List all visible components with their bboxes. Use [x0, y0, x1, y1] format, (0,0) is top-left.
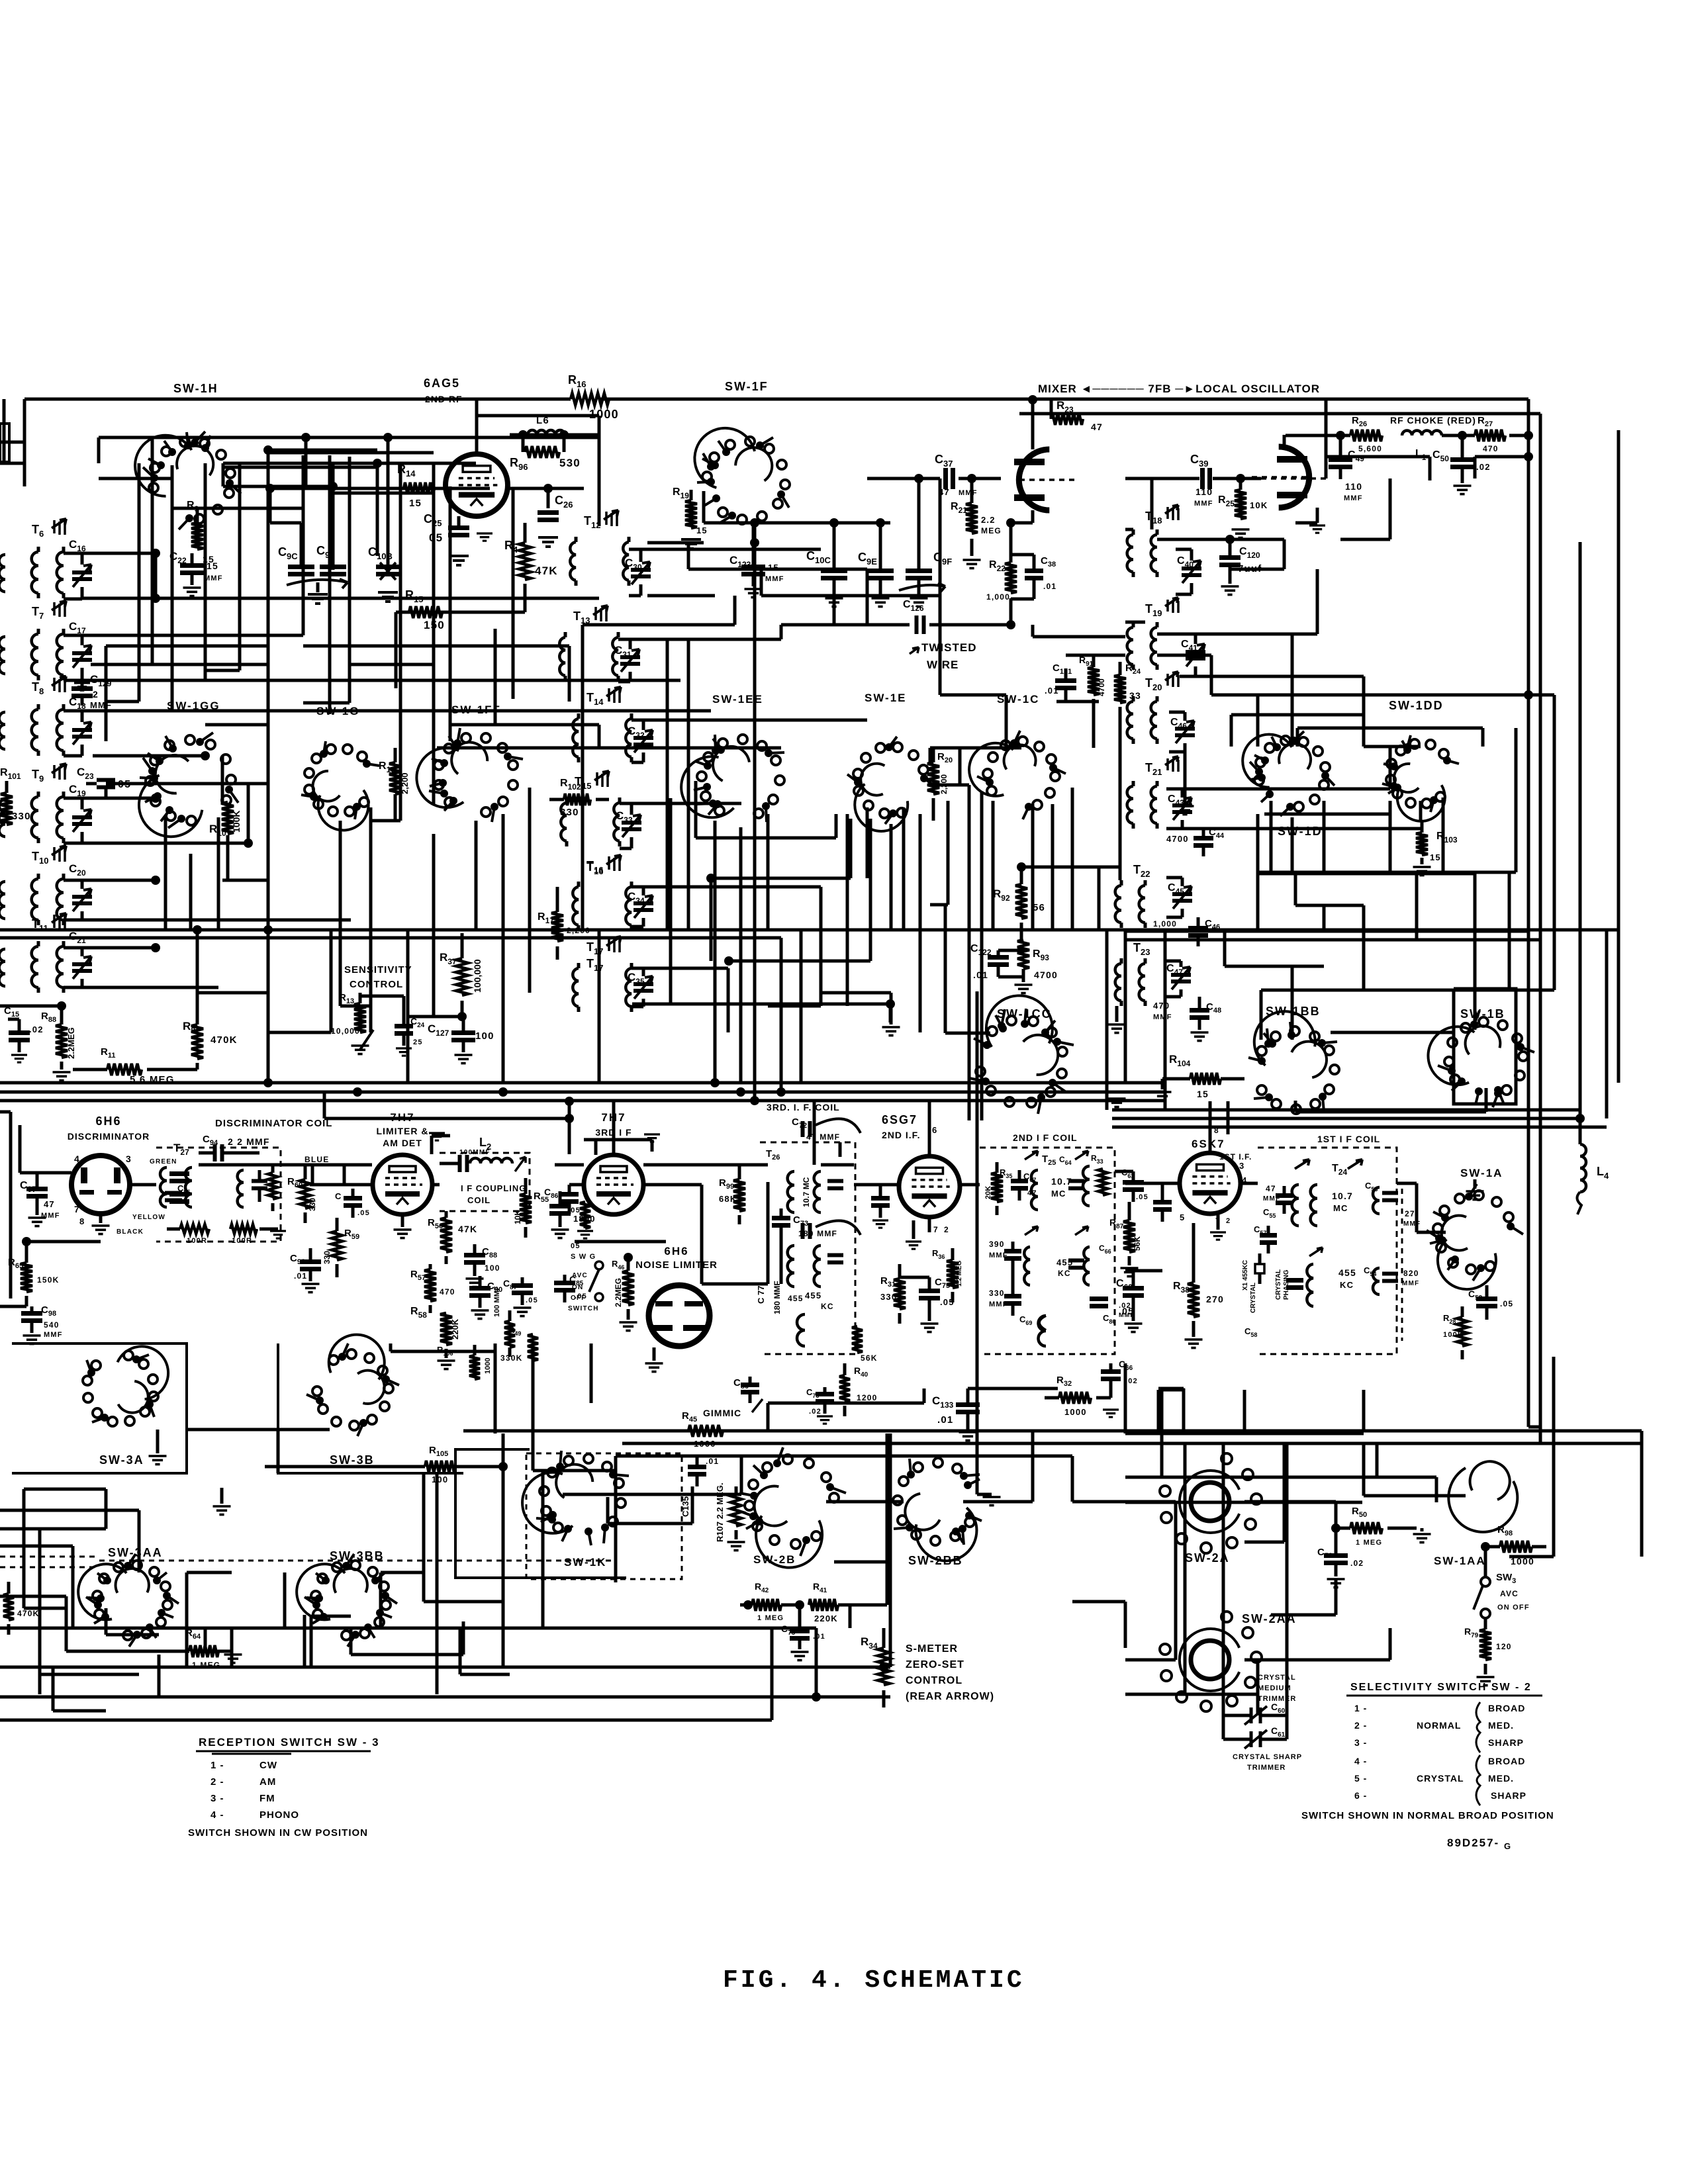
wire [1125, 477, 1199, 480]
wire grid [440, 487, 445, 490]
svg-text:47 MMF: 47 MMF [806, 1132, 840, 1142]
svg-text:MMF: MMF [1402, 1280, 1419, 1287]
wire [1256, 1694, 1260, 1715]
wire [928, 1218, 931, 1232]
wire [171, 465, 174, 711]
wire [930, 784, 969, 787]
wire [1362, 905, 1366, 990]
capacitor C41 trimmer [1186, 652, 1205, 659]
wire [1174, 1502, 1178, 1660]
svg-text:3: 3 [1239, 1161, 1244, 1171]
wire [1199, 1693, 1258, 1696]
wire [1417, 938, 1454, 942]
svg-text:2ND RF: 2ND RF [425, 394, 463, 404]
trimmer arrow T21 [1165, 756, 1178, 765]
junction [624, 1253, 633, 1262]
wire [1295, 1111, 1486, 1114]
wire [598, 437, 601, 526]
coil fragment left [0, 555, 5, 592]
transformer T7 secondary [57, 634, 64, 675]
capacitor C85 [554, 1283, 575, 1291]
svg-text:470: 470 [1153, 1001, 1170, 1011]
wire [1125, 930, 1528, 933]
wire [1640, 1443, 1644, 1557]
wire [512, 488, 515, 699]
resistor R25 [1235, 490, 1246, 519]
svg-text:WIRE: WIRE [927, 659, 959, 671]
wire [992, 814, 995, 930]
junction [876, 518, 885, 527]
wire [1031, 625, 1035, 637]
svg-text:BLACK: BLACK [117, 1228, 144, 1236]
wire [0, 1527, 106, 1531]
capacitor C65 [1068, 1261, 1084, 1268]
wire [1150, 478, 1154, 529]
wire [1243, 1390, 1246, 1431]
svg-text:15: 15 [409, 498, 422, 509]
wire [1509, 1555, 1554, 1559]
wire [302, 455, 305, 635]
wire [1515, 728, 1518, 872]
transformer T11 primary [32, 946, 38, 987]
wire [223, 466, 377, 469]
transformer T6 secondary [57, 552, 64, 593]
wire [1119, 748, 1122, 880]
wire [436, 1473, 439, 1628]
capacitor C68a [1004, 1251, 1021, 1259]
wire [1552, 1357, 1556, 1557]
resistor R98b [580, 1202, 590, 1228]
resistor R65 [21, 1263, 32, 1292]
resistor R93 [1017, 940, 1029, 969]
svg-text:4 -: 4 - [211, 1809, 224, 1821]
wire [65, 1596, 68, 1628]
switch contacts [755, 1518, 763, 1525]
trimmer arrow T20 [1165, 672, 1178, 680]
wire [422, 1473, 426, 1572]
svg-text:2 -: 2 - [211, 1776, 224, 1788]
svg-text:.02: .02 [1476, 462, 1491, 472]
svg-text:1200: 1200 [857, 1393, 878, 1402]
wire [268, 1031, 331, 1034]
tube U2 7F8 mixer half [1019, 449, 1049, 510]
capacitor C126 [917, 615, 924, 634]
wire [449, 486, 452, 741]
trim arrow [1309, 1248, 1323, 1256]
resistor R101 [1, 793, 13, 825]
wire [138, 463, 141, 702]
svg-text:DISCRIMINATOR COIL: DISCRIMINATOR COIL [215, 1118, 332, 1129]
wire [381, 1571, 424, 1574]
wire [105, 1489, 108, 1529]
wire [408, 1015, 462, 1019]
tube U4 7H7 limiter [373, 1155, 432, 1214]
wire [846, 814, 849, 930]
wire [350, 663, 434, 666]
wire [1376, 1443, 1379, 1477]
wire [1283, 435, 1286, 447]
svg-text:180 MMF: 180 MMF [773, 1281, 782, 1314]
wire [1231, 713, 1364, 717]
wire [1617, 430, 1620, 1083]
capacitor C90b [469, 1289, 491, 1296]
wire [1258, 871, 1516, 874]
resistor R92 [1015, 884, 1027, 919]
wire [344, 1163, 372, 1167]
svg-text:RECEPTION SWITCH SW - 3: RECEPTION SWITCH SW - 3 [199, 1736, 380, 1749]
resistor R8 [191, 1024, 203, 1059]
wire [1296, 728, 1299, 747]
svg-text:MED.: MED. [1488, 1773, 1514, 1784]
svg-text:.02: .02 [1125, 1377, 1138, 1385]
switch SW-1FF [416, 748, 463, 807]
transformer T25 coil5 [1039, 1316, 1046, 1346]
svg-text:BROAD: BROAD [1488, 1756, 1525, 1766]
trimmer arrow T11 [52, 913, 66, 923]
switch SW-2A [1191, 1482, 1229, 1521]
wire [138, 1510, 141, 1572]
junction [812, 1692, 821, 1702]
wire [82, 842, 248, 845]
bus wire [0, 1666, 890, 1669]
resistor R11 [107, 1064, 142, 1075]
wire [1225, 965, 1324, 968]
box SW-1B [1454, 989, 1516, 1104]
wire [82, 946, 156, 950]
junction [151, 943, 160, 952]
wire [285, 1627, 351, 1630]
svg-text:NOISE LIMITER: NOISE LIMITER [635, 1259, 718, 1271]
svg-text:1000: 1000 [1064, 1407, 1087, 1417]
wire [1389, 1628, 1392, 1660]
svg-text:SW-3B: SW-3B [330, 1453, 375, 1467]
switch SW-3A [118, 1346, 169, 1399]
svg-text:330: 330 [308, 1198, 317, 1211]
wire [277, 1430, 280, 1473]
svg-text:2: 2 [944, 1225, 949, 1234]
resistor R16 [571, 393, 609, 405]
resistor R66 [3, 1594, 14, 1620]
switch SW-1DD [1397, 785, 1445, 821]
capacitor C73 [803, 1223, 810, 1239]
wire [105, 1608, 108, 1635]
svg-text:GREEN: GREEN [150, 1158, 177, 1165]
wire [463, 1430, 1642, 1433]
wire plate [1031, 400, 1035, 449]
wire [389, 1343, 393, 1351]
svg-text:330: 330 [560, 807, 579, 818]
capacitor C31 trimmer [620, 657, 640, 664]
wire [433, 1183, 440, 1187]
wire [0, 462, 24, 465]
svg-text:100K: 100K [1443, 1331, 1464, 1339]
transformer T27 secondary [185, 1167, 192, 1207]
crystal X1 [1255, 1264, 1264, 1273]
wire [533, 1469, 616, 1473]
junction [736, 1087, 745, 1097]
wire [93, 754, 205, 758]
switch contacts [1266, 790, 1274, 798]
wire [739, 827, 743, 1083]
inductor L6 [528, 430, 565, 435]
wire [923, 1388, 926, 1403]
wire [9, 1112, 13, 1298]
ground [538, 537, 558, 547]
svg-text:100,000: 100,000 [472, 959, 483, 993]
wire [1072, 1500, 1175, 1504]
dashed box 1st IF [1258, 1148, 1397, 1354]
wire [222, 879, 268, 882]
ground [1108, 1024, 1126, 1033]
wire [1125, 1269, 1162, 1273]
wire [846, 930, 849, 1006]
junction [151, 594, 160, 603]
wire [710, 878, 713, 961]
wire [0, 1509, 139, 1512]
coil fragment left [0, 882, 5, 919]
wire [1271, 1614, 1336, 1617]
wire [886, 1502, 889, 1562]
wire [1539, 979, 1542, 1125]
junction [263, 445, 273, 455]
wire [97, 437, 101, 463]
svg-text:.05: .05 [1500, 1299, 1513, 1308]
dashed box L2 [440, 1153, 530, 1211]
junction [543, 484, 553, 493]
wire [1182, 827, 1421, 831]
svg-text:CRYSTAL: CRYSTAL [1258, 1674, 1296, 1682]
junction [244, 839, 253, 848]
svg-text:MMF: MMF [765, 575, 784, 583]
ground [1466, 1191, 1484, 1200]
wire [65, 1608, 68, 1651]
svg-text:8: 8 [79, 1216, 85, 1226]
wire [959, 477, 1001, 480]
resistor R31 [894, 1279, 906, 1309]
junction [750, 518, 759, 527]
wire [767, 1182, 770, 1284]
resistor R46 [622, 1271, 634, 1305]
svg-text:4 -: 4 - [1354, 1756, 1367, 1766]
wire [82, 679, 680, 682]
junction [373, 459, 382, 468]
wire [303, 1615, 306, 1667]
wire [1295, 904, 1364, 907]
bus wire [0, 1627, 772, 1630]
junction [1017, 862, 1026, 872]
svg-text:2.2MEG: 2.2MEG [66, 1027, 76, 1059]
transformer T26 c [788, 1246, 794, 1287]
variable arrow [287, 580, 348, 585]
wire [780, 625, 783, 639]
wire [568, 646, 571, 702]
wire [270, 487, 490, 490]
wire [919, 814, 922, 930]
svg-text:SELECTIVITY SWITCH SW -: SELECTIVITY SWITCH SW - 2 [1350, 1682, 1532, 1693]
junction [201, 751, 210, 760]
switch SW-2BB [915, 1508, 976, 1561]
junction [22, 1237, 31, 1246]
svg-text:GIMMIC: GIMMIC [703, 1408, 741, 1418]
svg-text:7: 7 [933, 1225, 939, 1234]
wire [598, 416, 601, 437]
capacitor C30 trimmer [631, 570, 651, 576]
wire [379, 1572, 383, 1628]
switch contacts [449, 797, 457, 805]
wire [1389, 747, 1392, 789]
wire [1640, 1431, 1644, 1443]
wire [1092, 709, 1096, 748]
wire [187, 1428, 330, 1432]
wire [510, 433, 599, 437]
wire [477, 414, 599, 418]
resistor R79 [1479, 1629, 1491, 1660]
switch SW-1H wafer [135, 435, 191, 496]
capacitor C97 [26, 1189, 48, 1197]
wire [158, 1655, 161, 1697]
wire [612, 1101, 616, 1155]
resistor R98 [1500, 1541, 1532, 1553]
wire [669, 798, 673, 1005]
svg-text:KC: KC [1340, 1280, 1354, 1290]
wire [524, 523, 527, 543]
trimmer arrow T12 [604, 510, 618, 520]
capacitor [1382, 1274, 1398, 1281]
wire [555, 1163, 584, 1167]
transformer T25 coil1 [1031, 1170, 1038, 1210]
trimmer arrow T19 [1165, 598, 1178, 606]
svg-text:6SG7: 6SG7 [882, 1113, 917, 1126]
wire [563, 1493, 741, 1496]
svg-text:C: C [335, 1191, 342, 1201]
svg-text:.01: .01 [937, 1414, 953, 1426]
wire [928, 1137, 931, 1155]
transformer coil C54 [1373, 1268, 1380, 1295]
transformer T22 primary [1115, 886, 1121, 923]
trimmer arrow T18 [1165, 505, 1178, 514]
wire [1419, 801, 1423, 821]
wire [339, 821, 342, 930]
svg-text:AM: AM [259, 1776, 276, 1788]
svg-text:.01: .01 [706, 1457, 719, 1466]
capacitor C67 [1011, 1181, 1028, 1189]
wire [1185, 1693, 1223, 1696]
svg-text:100R: 100R [232, 1237, 252, 1245]
switch SW-1D [1243, 735, 1291, 788]
wire [834, 1561, 887, 1564]
switch contacts [964, 1481, 972, 1489]
svg-text:SW-2BB: SW-2BB [908, 1554, 963, 1567]
svg-text:47: 47 [1266, 1184, 1276, 1193]
wire [902, 807, 906, 930]
capacitor C88b [460, 1155, 467, 1172]
switch SW3 toggle [1481, 1577, 1490, 1586]
wire [270, 522, 301, 525]
svg-text:100R: 100R [187, 1237, 207, 1245]
svg-text:25: 25 [413, 1038, 423, 1046]
svg-text:2ND I F COIL: 2ND I F COIL [1013, 1132, 1078, 1143]
wire [1362, 715, 1366, 747]
wire [1485, 1088, 1488, 1112]
svg-text:SW-2B: SW-2B [753, 1553, 796, 1566]
resistor R104 [1190, 1073, 1221, 1085]
wire [82, 879, 156, 882]
capacitor C77 [772, 1218, 790, 1226]
svg-text:C 77: C 77 [756, 1286, 766, 1304]
switch SW-3BB [297, 1564, 345, 1619]
wire [71, 1546, 75, 1628]
wire [24, 1488, 106, 1491]
svg-text:SW-1K: SW-1K [564, 1556, 606, 1569]
wire [1031, 1430, 1035, 1502]
wire [330, 492, 434, 495]
svg-text:330: 330 [322, 1251, 332, 1264]
transformer T26 e [797, 1314, 805, 1346]
wire [1270, 801, 1273, 872]
svg-text:ON OFF: ON OFF [1497, 1604, 1530, 1612]
svg-text:.05: .05 [1136, 1193, 1149, 1201]
wire [1124, 1602, 1127, 1648]
wire [1291, 966, 1294, 1040]
wire [702, 491, 706, 523]
svg-text:6AG5: 6AG5 [424, 377, 460, 390]
svg-text:CRYSTAL: CRYSTAL [1250, 1283, 1257, 1313]
capacitor C94 [215, 1144, 222, 1161]
wire [761, 594, 940, 598]
wire [1230, 715, 1233, 747]
capacitor C66 [1101, 1372, 1121, 1379]
capacitor C15 [9, 1033, 30, 1040]
wire [223, 462, 476, 465]
capacitor C62b [1123, 1289, 1144, 1296]
box SW-3A [12, 1343, 187, 1473]
switch contacts [712, 494, 720, 502]
switch SW-1EE [681, 756, 733, 817]
svg-text:KC: KC [821, 1302, 834, 1311]
capacitor C120 [1219, 558, 1241, 565]
switch SW-1G [318, 790, 369, 831]
junction [1006, 620, 1015, 629]
wire [1223, 930, 1227, 966]
wire [725, 1163, 768, 1167]
svg-text:MMF: MMF [959, 489, 978, 497]
wire [596, 623, 735, 627]
resistor R35 [991, 1173, 1003, 1202]
trimmer arrow T16 [606, 855, 621, 864]
switch contacts [1451, 1255, 1459, 1263]
wire [0, 1595, 66, 1598]
wire [1244, 1500, 1336, 1504]
ground [92, 1226, 110, 1234]
svg-text:1 MEG: 1 MEG [1356, 1539, 1382, 1547]
wire [1125, 1182, 1180, 1185]
svg-text:.02: .02 [809, 1408, 821, 1416]
capacitor C43 trimmer [1172, 805, 1192, 812]
svg-text:MMF: MMF [1194, 500, 1213, 508]
svg-text:5: 5 [1180, 1212, 1185, 1222]
svg-text:6H6: 6H6 [95, 1115, 121, 1128]
junction [151, 549, 160, 558]
capacitor C26 [538, 513, 559, 520]
wire [945, 1032, 990, 1035]
capacitor C19 trimmer [72, 817, 92, 824]
svg-text:330K: 330K [500, 1353, 523, 1363]
svg-text:S W G: S W G [571, 1253, 596, 1261]
wire [40, 1673, 139, 1676]
wire [696, 837, 836, 840]
svg-text:2 -: 2 - [1354, 1720, 1367, 1731]
wire [1209, 1101, 1212, 1134]
